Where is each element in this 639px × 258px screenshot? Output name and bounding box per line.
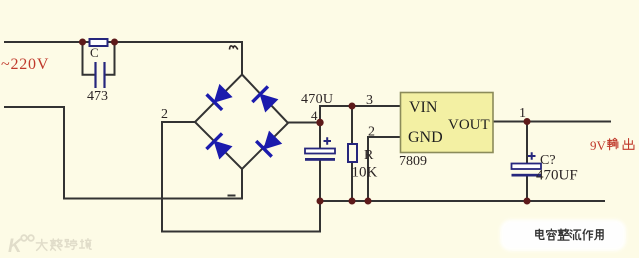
svg-text:3: 3 (366, 93, 373, 108)
svg-text:473: 473 (87, 89, 108, 104)
svg-text:2: 2 (368, 125, 375, 140)
svg-text:2: 2 (161, 107, 168, 122)
svg-text:VIN: VIN (409, 99, 438, 116)
svg-text:470UF: 470UF (536, 168, 578, 184)
svg-text:7809: 7809 (399, 154, 427, 169)
svg-text:C?: C? (540, 153, 556, 168)
svg-text:9V: 9V (590, 138, 607, 153)
svg-text:VOUT: VOUT (448, 117, 490, 133)
svg-text:R: R (364, 148, 374, 163)
svg-text:470U: 470U (301, 92, 333, 107)
svg-text:~220V: ~220V (1, 56, 49, 73)
svg-text:1: 1 (519, 106, 526, 121)
svg-text:GND: GND (408, 129, 443, 146)
svg-text:4: 4 (311, 108, 318, 123)
svg-text:C: C (90, 45, 99, 60)
svg-text:10K: 10K (352, 165, 378, 181)
